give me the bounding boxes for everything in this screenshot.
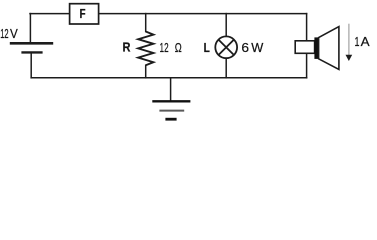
svg-text:A: A bbox=[361, 34, 370, 48]
svg-text:6: 6 bbox=[241, 41, 249, 55]
svg-text:V: V bbox=[10, 26, 18, 40]
svg-text:12: 12 bbox=[160, 41, 169, 55]
svg-text:1: 1 bbox=[354, 35, 359, 49]
svg-text:W: W bbox=[251, 41, 263, 55]
svg-text:12: 12 bbox=[0, 28, 9, 41]
svg-text:R: R bbox=[123, 40, 131, 55]
svg-text:L: L bbox=[204, 42, 210, 55]
svg-text:F: F bbox=[80, 8, 86, 21]
svg-text:Ω: Ω bbox=[175, 42, 182, 56]
